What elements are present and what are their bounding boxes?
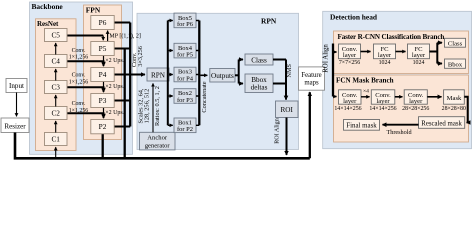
svg-text:for P4: for P4 <box>177 75 194 82</box>
wire C2 to C3 <box>55 95 57 107</box>
wire RPN distribution trunk <box>167 21 169 126</box>
wire Input to Resizer <box>16 93 18 117</box>
block Input <box>6 79 27 93</box>
wire into Box3 <box>169 74 173 76</box>
block C3 <box>45 81 68 94</box>
wire Outputs split bar <box>238 60 240 84</box>
svg-text:ROI Align: ROI Align <box>274 118 280 144</box>
svg-text:Resizer: Resizer <box>4 123 26 131</box>
svg-text:Conv.: Conv. <box>72 101 86 107</box>
label Scales 32, 64, 128, 256, 512 rotated <box>138 88 151 123</box>
container ResNet <box>36 19 77 151</box>
wire P4 output into RPN <box>114 74 145 76</box>
svg-text:layer: layer <box>343 52 357 59</box>
wire into Box5 <box>168 20 173 22</box>
block Rescaled mask <box>419 117 465 129</box>
block FC layer 1024 first <box>374 44 396 59</box>
block Class <box>245 54 273 65</box>
svg-text:for P6: for P6 <box>177 21 194 28</box>
wire into Bbox output <box>437 63 442 65</box>
svg-text:Outputs: Outputs <box>211 72 234 80</box>
wire FC2 split bar <box>436 43 438 64</box>
svg-text:Detection head: Detection head <box>330 13 378 22</box>
svg-text:layer: layer <box>378 52 392 59</box>
wire Outputs split stem <box>235 74 239 76</box>
svg-text:ROI: ROI <box>281 106 294 114</box>
wire C3 lateral into P3 <box>67 87 104 91</box>
block C4 <box>45 55 68 68</box>
block Box4 for P5 <box>174 43 196 58</box>
svg-text:RPN: RPN <box>261 16 277 25</box>
block P5 <box>91 42 114 56</box>
wire trunk P-levels to RPN <box>129 23 131 127</box>
svg-text:Class: Class <box>251 56 267 64</box>
svg-text:P6: P6 <box>99 18 107 27</box>
svg-text:Final mask: Final mask <box>346 123 377 130</box>
block FC layer 1024 second <box>408 44 430 59</box>
svg-text:1×1,256: 1×1,256 <box>69 54 89 60</box>
block mask Conv. layer 14x14x256 first <box>339 90 362 104</box>
wire upsample P3 to P2 <box>103 108 105 119</box>
wire P5 output <box>114 48 130 50</box>
wire bus to Outputs <box>201 74 208 76</box>
wire C4 lateral into P4 <box>67 61 104 65</box>
svg-text:1024: 1024 <box>379 60 391 66</box>
svg-text:Threshold: Threshold <box>386 129 412 136</box>
wire into Faster branch conv layer <box>333 51 337 53</box>
svg-text:layer: layer <box>343 98 357 105</box>
svg-text:1×1,256: 1×1,256 <box>69 80 89 86</box>
wire ROI down to bottom bus <box>286 118 288 155</box>
svg-text:×2 Ups.: ×2 Ups. <box>105 110 125 116</box>
wire NMS down into ROI <box>285 60 287 100</box>
svg-text:layer: layer <box>376 98 390 105</box>
svg-text:FPN: FPN <box>86 5 101 14</box>
svg-text:C1: C1 <box>51 134 60 143</box>
svg-text:P3: P3 <box>99 96 107 105</box>
block P3 <box>91 94 114 108</box>
svg-text:for P5: for P5 <box>177 51 193 58</box>
wire C1 to C2 <box>55 121 57 133</box>
svg-text:FCN Mask Branch: FCN Mask Branch <box>336 76 394 84</box>
wire box outputs to concatenate bus <box>196 21 199 126</box>
svg-text:layer: layer <box>409 98 423 105</box>
wire P2 down to bottom bus <box>102 134 104 158</box>
svg-text:Ratios: 0.5, 1, 2: Ratios: 0.5, 1, 2 <box>154 86 161 126</box>
block Box2 for P3 <box>174 89 196 104</box>
wire trunk P-features to bottom bus <box>124 49 126 158</box>
block Mask 28x28x80 <box>444 90 465 104</box>
wire bottom bus from Resizer to Feature maps <box>15 133 310 159</box>
wire into Box4 <box>168 50 173 52</box>
svg-text:14×14×256: 14×14×256 <box>334 106 361 112</box>
svg-text:128, 256, 512: 128, 256, 512 <box>143 89 150 124</box>
wire into Box1 <box>168 124 173 126</box>
wire C3 to C4 <box>55 69 57 81</box>
block C2 <box>45 107 68 120</box>
container Backbone <box>30 2 133 154</box>
block ROI <box>276 101 299 118</box>
wire into Bbox deltas <box>239 83 243 85</box>
svg-text:C2: C2 <box>51 108 60 117</box>
svg-text:deltas: deltas <box>251 84 268 92</box>
wire Mask down to Rescaled mask <box>464 97 467 123</box>
block P6 <box>91 16 114 30</box>
svg-text:ResNet: ResNet <box>37 20 59 28</box>
svg-text:for P3: for P3 <box>177 97 193 104</box>
block Bbox deltas <box>245 74 273 93</box>
svg-text:×4: ×4 <box>363 88 369 94</box>
svg-text:MP [(1,1), 2]: MP [(1,1), 2] <box>109 33 140 40</box>
block C1 <box>45 133 68 146</box>
block Feature maps <box>299 67 325 90</box>
wire P6 output <box>114 22 130 24</box>
block Bbox output <box>445 59 466 68</box>
container Faster R-CNN Classification Branch <box>334 31 469 74</box>
wire C4 to C5 <box>55 43 57 55</box>
svg-text:×2 Ups.: ×2 Ups. <box>105 84 125 90</box>
wire detection head input bus <box>332 44 334 97</box>
wire Bbox deltas to NMS <box>273 83 286 85</box>
wire C2 lateral into P2 <box>67 113 104 117</box>
wire conv to FC1 <box>361 51 371 53</box>
block Box1 for P2 <box>174 118 196 133</box>
block C5 <box>45 29 68 42</box>
block Box5 for P6 <box>174 13 196 28</box>
svg-text:RPN: RPN <box>151 71 166 79</box>
svg-text:1024: 1024 <box>413 60 425 66</box>
wire C5 lateral <box>67 35 103 37</box>
label Conv. 3x3,256 rotated <box>131 46 144 67</box>
wire upsample P4 to P3 <box>103 82 105 93</box>
svg-text:C5: C5 <box>51 30 60 39</box>
svg-text:P5: P5 <box>99 44 107 53</box>
container RPN <box>137 13 299 149</box>
wire down into P5 <box>102 36 104 41</box>
svg-text:Backbone: Backbone <box>32 2 64 11</box>
wire into Box2 <box>168 95 173 97</box>
block P2 <box>91 120 114 134</box>
svg-text:28×28×80: 28×28×80 <box>442 106 466 112</box>
wire FC1 to FC2 <box>396 51 406 53</box>
svg-text:Mask: Mask <box>447 95 462 102</box>
svg-text:×2 Ups.: ×2 Ups. <box>105 58 125 64</box>
svg-text:layer: layer <box>412 52 426 59</box>
block Final mask <box>344 120 380 131</box>
wire P3 output <box>114 100 130 102</box>
svg-text:3×3,256: 3×3,256 <box>137 46 144 67</box>
svg-text:Rescaled mask: Rescaled mask <box>421 120 462 127</box>
block mask Conv. layer 28x28x256 <box>404 90 427 104</box>
svg-text:Anchor: Anchor <box>147 135 168 142</box>
wire FC2 split stem <box>430 51 438 53</box>
container Detection head <box>323 11 472 148</box>
wire P2 output <box>114 126 130 128</box>
svg-text:1×1,256: 1×1,256 <box>69 108 89 114</box>
svg-text:C4: C4 <box>51 56 60 65</box>
wire into Class output <box>437 42 442 44</box>
block Conv. layer 7x7x256 <box>339 44 361 59</box>
block Anchor generator <box>140 132 176 150</box>
svg-text:P4: P4 <box>99 70 107 79</box>
svg-text:C3: C3 <box>51 82 60 91</box>
svg-text:Conv.: Conv. <box>72 48 86 54</box>
svg-text:Input: Input <box>9 82 24 90</box>
wire maxpool P5 to P6 <box>107 31 109 42</box>
wire concatenate bus <box>198 21 200 126</box>
block Class output <box>445 38 466 47</box>
container FCN Mask Branch <box>334 75 469 142</box>
block RPN conv <box>147 68 169 81</box>
wire mask conv3 to Mask <box>427 96 441 98</box>
block mask Conv. layer 14x14x256 second <box>371 90 395 104</box>
svg-text:Faster R-CNN Classification Br: Faster R-CNN Classification Branch <box>338 33 445 41</box>
wire up into Feature maps <box>309 92 311 158</box>
svg-text:generator: generator <box>145 142 171 149</box>
svg-text:7×7×256: 7×7×256 <box>339 60 360 66</box>
wire Anchor generator to RPN <box>152 83 154 132</box>
svg-text:Class: Class <box>448 40 463 47</box>
svg-text:P2: P2 <box>99 122 107 131</box>
wire Class to NMS <box>273 59 286 61</box>
svg-text:14×14×256: 14×14×256 <box>369 106 396 112</box>
wire upsample P5 to P4 <box>103 56 105 67</box>
svg-text:ROI Align: ROI Align <box>322 44 329 73</box>
svg-text:Concatenate: Concatenate <box>201 81 208 112</box>
svg-text:maps: maps <box>304 80 319 87</box>
wire into Class <box>239 59 243 61</box>
svg-text:NMS: NMS <box>286 64 293 78</box>
block Box3 for P4 <box>174 67 196 82</box>
block P4 <box>91 68 114 82</box>
wire mask conv1 to conv2 <box>361 96 370 98</box>
wire mask conv2 to conv3 <box>395 96 403 98</box>
svg-text:Feature: Feature <box>301 72 321 79</box>
wire into FCN branch conv layer <box>333 96 337 98</box>
wire into C1 from bottom bus <box>55 147 57 158</box>
block Outputs <box>210 69 235 83</box>
svg-text:28×28×256: 28×28×256 <box>402 106 429 112</box>
svg-text:Bbox: Bbox <box>448 61 463 68</box>
svg-text:for P2: for P2 <box>177 126 193 133</box>
block Resizer <box>1 118 29 133</box>
wire Rescaled mask to Final mask <box>383 124 419 126</box>
container FPN <box>84 5 122 140</box>
svg-text:Conv.: Conv. <box>72 73 86 79</box>
